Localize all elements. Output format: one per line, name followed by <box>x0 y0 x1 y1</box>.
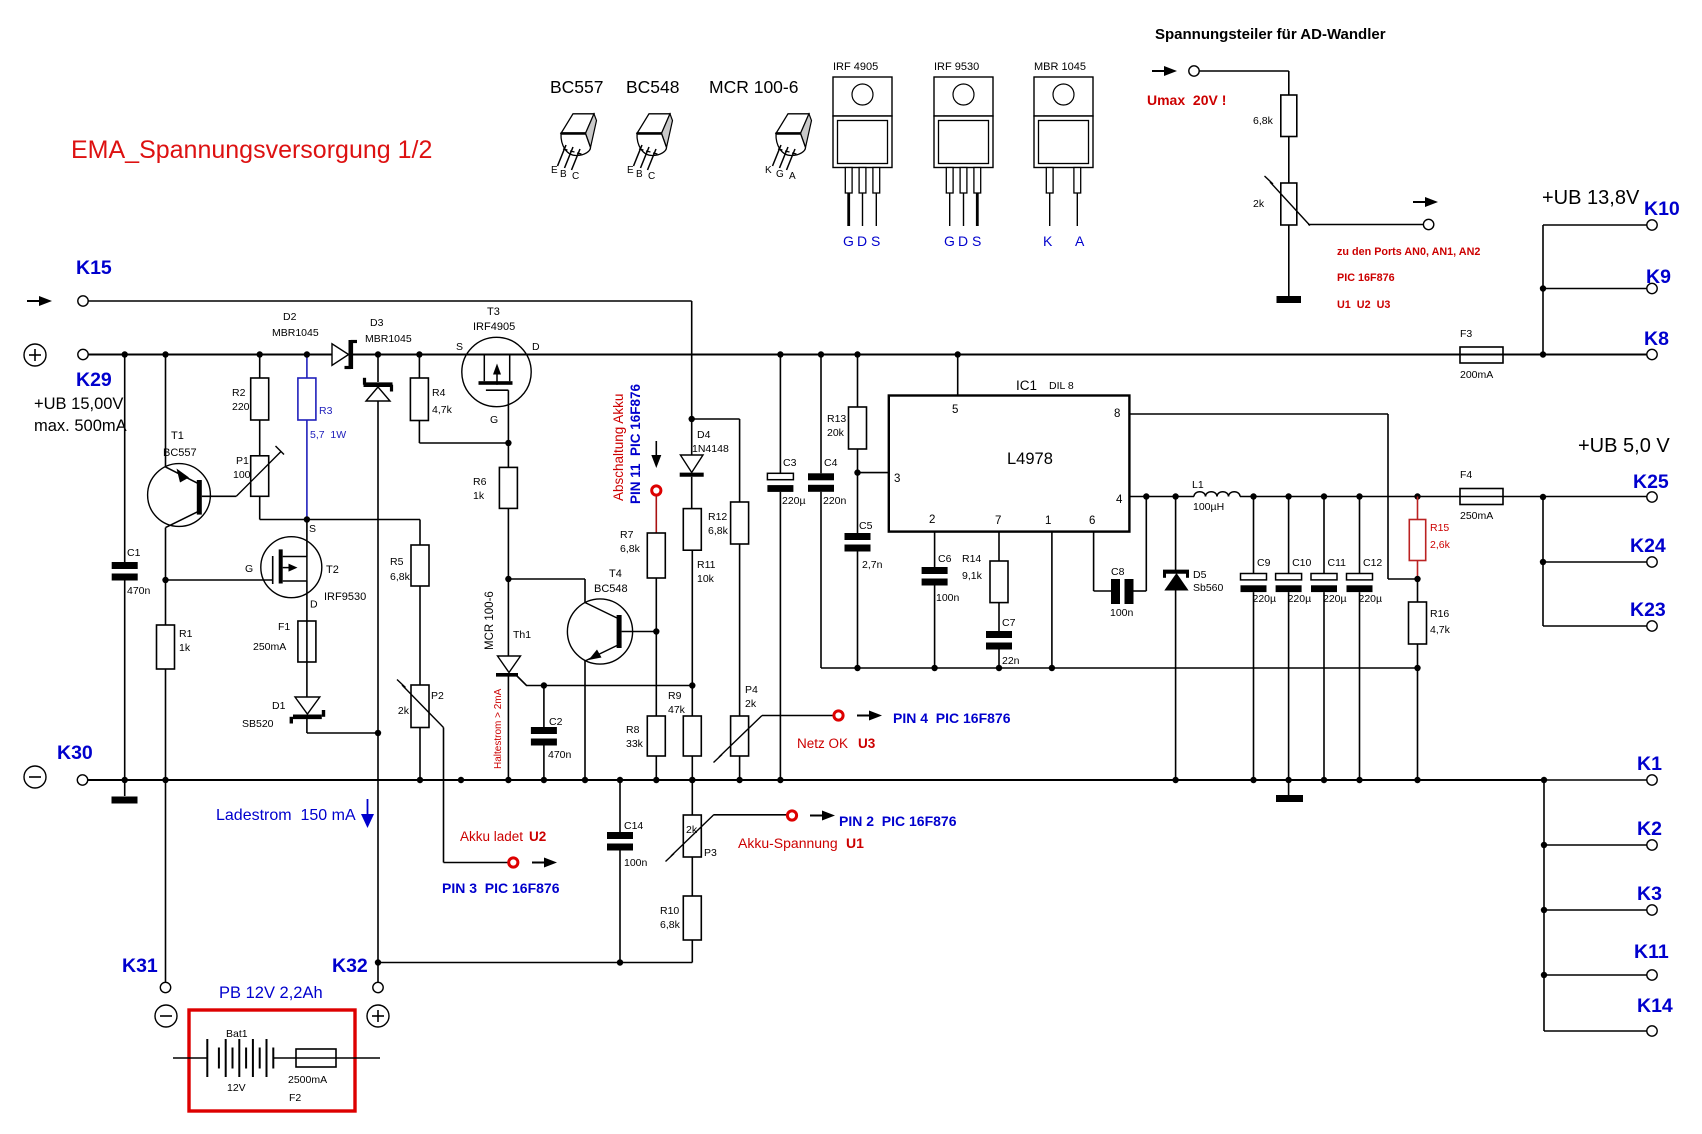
wire S to T2 source <box>306 520 308 557</box>
svg-text:8: 8 <box>1114 408 1120 420</box>
thyristor Th1 MCR 100-6 <box>496 629 692 686</box>
wire K11 <box>1541 972 1647 978</box>
svg-text:2k: 2k <box>1253 198 1265 210</box>
capacitor C5 2,7n <box>845 520 883 571</box>
svg-text:D: D <box>958 233 968 249</box>
svg-text:PB 12V 2,2Ah: PB 12V 2,2Ah <box>219 984 323 1002</box>
resistor R6 1k <box>473 467 517 508</box>
svg-text:6,8k: 6,8k <box>390 571 411 583</box>
svg-text:2k: 2k <box>745 698 757 710</box>
svg-text:R4: R4 <box>432 387 446 399</box>
diode D5 Sb560 <box>1163 493 1224 783</box>
svg-text:MCR 100-6: MCR 100-6 <box>709 77 798 97</box>
capacitor C2 470n <box>531 716 572 761</box>
svg-text:S: S <box>972 233 981 249</box>
wire C8 to +5V rail <box>1134 493 1150 591</box>
label +UB 15,00V <box>34 395 127 435</box>
package drawing BC557 (TO-92) <box>550 77 604 182</box>
svg-text:2,7n: 2,7n <box>862 559 883 571</box>
label MCR 100-6 (rotated) <box>484 591 496 650</box>
svg-text:2500mA: 2500mA <box>288 1074 327 1086</box>
svg-text:D5: D5 <box>1193 569 1207 581</box>
svg-text:S: S <box>456 341 463 353</box>
svg-text:T4: T4 <box>609 568 622 580</box>
wire R2 to P1 <box>259 420 261 456</box>
svg-text:B: B <box>560 169 567 180</box>
label Abschaltung Akku (rotated) <box>611 394 626 501</box>
svg-text:K1: K1 <box>1637 753 1662 775</box>
svg-text:C5: C5 <box>859 520 873 532</box>
wire K3 <box>1541 907 1647 913</box>
wire K23 <box>1543 625 1647 627</box>
svg-text:A: A <box>1075 233 1085 249</box>
svg-text:470n: 470n <box>548 749 572 761</box>
svg-text:L4978: L4978 <box>1007 450 1053 468</box>
output arrow <box>1413 197 1438 207</box>
svg-text:PIC 16F876: PIC 16F876 <box>1337 272 1395 284</box>
svg-text:R5: R5 <box>390 556 404 568</box>
node S junction <box>304 516 316 535</box>
wire R9 to ground bus <box>689 756 695 783</box>
wire +5V vertical <box>1540 494 1546 626</box>
wire R13 to C5 with pin3 tap <box>854 449 889 533</box>
wire K-lower vertical <box>1543 780 1545 1031</box>
svg-text:D4: D4 <box>697 429 711 441</box>
wire T2 drain to F1 <box>306 581 308 621</box>
svg-text:U3: U3 <box>858 736 876 751</box>
svg-text:PIN 3 PIC 16F876: PIN 3 PIC 16F876 <box>442 880 560 896</box>
wire P2 bottom to ground bus <box>417 728 423 784</box>
svg-text:BC557: BC557 <box>163 447 197 459</box>
wire to K31 <box>165 780 167 982</box>
red terminal PIN11 <box>652 486 661 495</box>
arrow PIN3 <box>532 858 557 868</box>
resistor R7 6,8k <box>620 529 665 578</box>
svg-text:5: 5 <box>952 404 958 416</box>
wire K15 rail <box>88 301 692 419</box>
wire T4 base <box>622 628 660 634</box>
svg-text:K10: K10 <box>1644 198 1680 220</box>
input arrow <box>1152 66 1177 76</box>
wire R3 top <box>304 351 310 378</box>
label PB 12V 2,2Ah <box>219 984 323 1002</box>
capacitor C1 470n <box>112 547 151 597</box>
svg-text:R14: R14 <box>962 553 981 565</box>
diode D1 SB520 <box>242 697 324 730</box>
junction K15 rail to D4 <box>689 416 695 422</box>
wire T1 emitter to bus <box>162 351 168 467</box>
svg-text:220µ: 220µ <box>1323 593 1347 605</box>
wire R3 bottom to S node <box>306 420 308 520</box>
arrow PIN4 <box>857 711 882 721</box>
svg-text:12V: 12V <box>227 1082 246 1094</box>
svg-text:R10: R10 <box>660 905 679 917</box>
label Netz OK U3 <box>797 736 876 751</box>
label zu den Ports <box>1337 246 1480 311</box>
wire C3 bottom to ground bus <box>777 492 783 783</box>
label +UB 13,8V <box>1542 187 1640 209</box>
svg-text:U2: U2 <box>529 829 546 844</box>
svg-text:K8: K8 <box>1644 328 1669 350</box>
plus symbol at K29 <box>24 344 46 366</box>
potentiometer 2k <box>1253 176 1310 226</box>
svg-text:IRF 4905: IRF 4905 <box>833 61 878 73</box>
svg-text:max. 500mA: max. 500mA <box>34 417 127 435</box>
terminal K30 <box>77 775 87 785</box>
label Akku ladet U2 <box>460 829 546 844</box>
wire K32 line <box>378 962 692 964</box>
svg-text:470n: 470n <box>127 585 151 597</box>
svg-text:Netz OK: Netz OK <box>797 736 848 751</box>
junction pin8/R15/R16 <box>1414 576 1420 582</box>
svg-text:Akku ladet: Akku ladet <box>460 829 523 844</box>
wire 2k to ground <box>1288 225 1290 296</box>
svg-text:200mA: 200mA <box>1460 369 1493 381</box>
svg-text:IRF 9530: IRF 9530 <box>934 61 979 73</box>
svg-text:100: 100 <box>233 469 251 481</box>
inductor L1 100uH <box>1192 479 1240 513</box>
svg-text:SB520: SB520 <box>242 718 274 730</box>
resistor R16 4,7k <box>1409 579 1451 644</box>
wire R2 top <box>257 351 263 378</box>
wire T4 collector <box>584 579 586 603</box>
svg-text:K3: K3 <box>1637 883 1662 905</box>
potentiometer P4 2k <box>714 684 763 763</box>
resistor 6,8k <box>1253 95 1297 137</box>
svg-text:R6: R6 <box>473 476 487 488</box>
resistor R8 33k <box>626 716 665 756</box>
diode D2 MBR1045 <box>272 311 357 369</box>
stray junction dot <box>458 777 464 783</box>
minus symbol at K30 <box>24 766 46 788</box>
wire C3 top <box>777 351 783 473</box>
svg-text:6: 6 <box>1089 515 1095 527</box>
transistor T3 IRF4905 <box>456 306 540 426</box>
wire R12 to P4 <box>739 544 741 716</box>
ground at K30 <box>112 780 138 804</box>
capacitor C14 100n <box>607 820 648 869</box>
svg-text:Th1: Th1 <box>513 629 531 641</box>
fuse F3 200mA <box>1460 328 1503 381</box>
svg-text:Sb560: Sb560 <box>1193 582 1224 594</box>
resistor R3 5,7 1W (blue) <box>298 378 346 441</box>
wire K24 <box>1543 561 1647 563</box>
wire D1 to battery-plus line <box>307 719 381 736</box>
svg-text:E: E <box>551 165 558 176</box>
svg-text:9,1k: 9,1k <box>962 570 983 582</box>
terminal K24 <box>1630 535 1666 567</box>
wire to T4 collector <box>508 578 585 580</box>
wire R7 to R8 <box>655 578 657 716</box>
svg-text:IRF9530: IRF9530 <box>324 591 366 603</box>
plus symbol at battery <box>367 1005 389 1027</box>
red terminal Netz OK <box>834 711 843 720</box>
svg-text:P3: P3 <box>704 847 717 859</box>
wire pin7 to R14 <box>998 532 1000 561</box>
wire C5 bottom to analog rail <box>854 552 860 672</box>
svg-text:U1 U2 U3: U1 U2 U3 <box>1337 299 1390 311</box>
terminal K29 <box>78 349 88 359</box>
svg-text:C: C <box>572 171 579 182</box>
wire R8 to ground bus <box>653 756 659 783</box>
arrow into PIN11 terminal <box>651 441 661 468</box>
node K31 <box>122 955 158 977</box>
resistor R13 20k <box>827 407 867 449</box>
wire C7 to analog rail <box>996 650 1002 672</box>
label PIN 3 PIC 16F876 <box>442 880 560 896</box>
svg-text:D1: D1 <box>272 700 286 712</box>
svg-text:20k: 20k <box>827 427 845 439</box>
svg-text:G: G <box>776 169 784 180</box>
svg-text:K23: K23 <box>1630 599 1666 621</box>
wire PIN11 to R7 <box>655 496 657 533</box>
package drawing BC548 (TO-92) <box>626 77 680 182</box>
svg-text:R13: R13 <box>827 413 846 425</box>
wire C4 bottom to analog rail <box>820 492 822 668</box>
svg-text:R16: R16 <box>1430 608 1449 620</box>
wire <box>1288 137 1290 184</box>
capacitor C10 220u <box>1276 493 1312 783</box>
svg-text:MBR1045: MBR1045 <box>272 327 319 339</box>
resistor R10 6,8k <box>660 896 701 940</box>
svg-text:EMA_Spannungsversorgung 1/2: EMA_Spannungsversorgung 1/2 <box>71 136 432 164</box>
svg-text:6,8k: 6,8k <box>708 525 729 537</box>
svg-text:B: B <box>636 169 643 180</box>
resistor R1 1k <box>157 625 193 669</box>
wire C2 top <box>541 682 547 727</box>
wire R13 top <box>854 351 860 407</box>
svg-text:P4: P4 <box>745 684 758 696</box>
label Haltestrom > 2mA (rotated) <box>493 688 504 769</box>
label PIN 2 PIC 16F876 <box>839 813 957 829</box>
wire R11 to R9 junction <box>689 550 695 716</box>
red terminal PIN2 (Akku-Spannung) <box>787 811 796 820</box>
svg-text:K31: K31 <box>122 955 158 977</box>
svg-text:Ladestrom 150 mA: Ladestrom 150 mA <box>216 807 356 824</box>
battery box (red) <box>189 1010 355 1111</box>
input terminal <box>1189 66 1199 76</box>
svg-text:K2: K2 <box>1637 818 1662 840</box>
svg-text:22n: 22n <box>1002 655 1020 667</box>
capacitor C9 220u <box>1241 493 1277 783</box>
svg-text:Abschaltung Akku: Abschaltung Akku <box>611 394 626 501</box>
ground at bottom bus <box>1276 780 1303 802</box>
svg-text:C8: C8 <box>1111 566 1125 578</box>
svg-text:IC1: IC1 <box>1016 378 1037 393</box>
analog ground rail <box>821 667 1418 669</box>
main +15V bus wire <box>88 354 1647 356</box>
package drawing IRF 9530 (TO-220) <box>934 61 993 249</box>
terminal K32 <box>373 963 383 993</box>
svg-text:C2: C2 <box>549 716 563 728</box>
svg-text:zu den Ports AN0, AN1, AN2: zu den Ports AN0, AN1, AN2 <box>1337 246 1480 258</box>
svg-text:D3: D3 <box>370 317 384 329</box>
svg-text:D: D <box>857 233 867 249</box>
capacitor C8 100n <box>1110 566 1134 619</box>
node K15 <box>76 257 112 279</box>
svg-text:F2: F2 <box>289 1092 301 1104</box>
wire R6 to Th1 <box>505 508 511 656</box>
svg-text:Umax 20V !: Umax 20V ! <box>1147 92 1226 108</box>
svg-text:C9: C9 <box>1257 557 1271 569</box>
svg-text:4: 4 <box>1116 494 1123 506</box>
wire S node to R5 <box>307 520 420 546</box>
wire C14 bottom to K32 line <box>617 851 623 966</box>
wire T1 collector down <box>162 528 168 625</box>
wire T2 gate <box>166 579 273 581</box>
svg-text:220µ: 220µ <box>1288 593 1312 605</box>
resistor R5 6,8k <box>390 545 429 586</box>
svg-text:C3: C3 <box>783 457 797 469</box>
resistor R9 47k <box>668 690 701 756</box>
svg-text:D: D <box>310 599 318 611</box>
svg-text:100n: 100n <box>936 592 960 604</box>
ground bus wire (0V) <box>88 779 1544 781</box>
svg-text:R2: R2 <box>232 387 246 399</box>
svg-text:2k: 2k <box>398 705 410 717</box>
svg-text:Akku-Spannung: Akku-Spannung <box>738 835 838 851</box>
wire P4 to ground bus <box>736 756 742 783</box>
transistor T4 BC548 <box>567 568 632 664</box>
potentiometer P1 100 <box>233 446 284 496</box>
capacitor C3 220u <box>767 457 805 507</box>
svg-text:K9: K9 <box>1646 266 1671 288</box>
blue arrow down (Ladestrom) <box>361 799 374 828</box>
svg-text:C6: C6 <box>938 553 952 565</box>
wire C1 bottom <box>122 581 128 784</box>
battery Bat1 12V <box>173 1028 296 1094</box>
title EMA_Spannungsversorgung 1/2 <box>71 136 432 164</box>
svg-text:C14: C14 <box>624 820 643 832</box>
wire C2 bottom <box>541 746 547 784</box>
wire pin4 +5V rail <box>1129 496 1194 498</box>
svg-text:+UB 15,00V: +UB 15,00V <box>34 395 123 413</box>
svg-text:C12: C12 <box>1363 557 1382 569</box>
IC U1 L4978 <box>889 378 1130 532</box>
svg-text:+UB 5,0 V: +UB 5,0 V <box>1578 435 1670 457</box>
wire K9 <box>1543 288 1647 290</box>
svg-text:5,7 1W: 5,7 1W <box>310 429 346 441</box>
svg-text:Haltestrom > 2mA: Haltestrom > 2mA <box>493 688 504 769</box>
svg-text:BC557: BC557 <box>550 77 604 97</box>
wire pin2 to C6 <box>934 532 936 567</box>
svg-text:Bat1: Bat1 <box>226 1028 248 1040</box>
arrow PIN2 <box>810 811 835 821</box>
svg-text:100µH: 100µH <box>1193 501 1224 513</box>
svg-text:6,8k: 6,8k <box>620 543 641 555</box>
transistor T2 IRF9530 <box>245 537 366 611</box>
svg-text:1N4148: 1N4148 <box>692 443 729 455</box>
svg-text:250mA: 250mA <box>253 641 286 653</box>
wire P4 wiper to Netz OK terminal <box>762 715 833 717</box>
svg-text:4,7k: 4,7k <box>1430 624 1451 636</box>
wire T4 emitter to ground bus <box>582 661 588 784</box>
svg-text:G: G <box>490 414 498 426</box>
resistor R14 9,1k <box>962 553 1008 603</box>
terminal K31 <box>160 982 170 992</box>
svg-text:K29: K29 <box>76 369 112 391</box>
capacitor C6 100n <box>922 553 960 604</box>
wire C1 top <box>122 351 128 562</box>
svg-text:PIN 4 PIC 16F876: PIN 4 PIC 16F876 <box>893 710 1011 726</box>
diode D4 1N4148 <box>680 419 729 475</box>
svg-text:2,6k: 2,6k <box>1430 539 1451 551</box>
svg-text:6,8k: 6,8k <box>1253 115 1274 127</box>
fuse F1 250mA <box>253 621 316 662</box>
terminal K3 <box>1637 883 1662 915</box>
terminal K1 <box>1637 753 1662 785</box>
wire R10 to K32 line <box>691 940 693 963</box>
wire P1 bottom to S node <box>260 496 307 519</box>
svg-text:G: G <box>843 233 854 249</box>
output terminal <box>1423 219 1433 229</box>
svg-text:220n: 220n <box>823 495 847 507</box>
wire Th1 cathode to ground bus <box>505 676 511 783</box>
svg-text:E: E <box>627 165 634 176</box>
svg-text:4,7k: 4,7k <box>432 404 453 416</box>
wire P3 to R10 <box>691 857 693 896</box>
svg-text:MBR1045: MBR1045 <box>365 333 412 345</box>
svg-text:D: D <box>532 341 540 353</box>
potentiometer P2 2k <box>397 680 444 728</box>
label PIN 4 PIC 16F876 <box>893 710 1011 726</box>
subcircuit title Spannungsteiler <box>1155 26 1386 43</box>
svg-text:C11: C11 <box>1328 557 1347 569</box>
terminal K15 <box>78 296 88 306</box>
package drawing MBR 1045 (TO-220) <box>1034 61 1093 249</box>
svg-text:K32: K32 <box>332 955 368 977</box>
wire K1 from ground bus <box>1541 777 1647 783</box>
svg-text:T2: T2 <box>326 564 339 576</box>
svg-text:3: 3 <box>894 473 900 485</box>
svg-text:R1: R1 <box>179 628 193 640</box>
svg-text:47k: 47k <box>668 704 686 716</box>
svg-text:33k: 33k <box>626 738 644 750</box>
svg-text:2k: 2k <box>686 824 698 836</box>
wire pin5 to bus <box>955 351 961 395</box>
minus symbol at battery <box>155 1005 177 1027</box>
capacitor C7 22n <box>986 617 1020 667</box>
wire C14 top <box>617 777 623 832</box>
wire D4 junction to R12 <box>692 419 740 502</box>
resistor R11 10k <box>683 509 715 585</box>
svg-text:220: 220 <box>232 401 250 413</box>
svg-text:L1: L1 <box>1192 479 1204 491</box>
label PIN 11 PIC 16F876 (rotated) <box>628 383 643 504</box>
node K30 <box>57 742 93 764</box>
wire bus to P3 <box>689 777 695 815</box>
svg-text:G: G <box>245 563 253 575</box>
wire pin6 to C8 <box>1094 532 1111 591</box>
svg-text:DIL 8: DIL 8 <box>1049 380 1074 392</box>
wire P3 wiper to PIN2 terminal <box>714 814 786 816</box>
svg-text:R8: R8 <box>626 724 640 736</box>
potentiometer P3 2k <box>666 815 718 862</box>
arrow into K15 <box>27 296 52 306</box>
wire R16 to ground bus <box>1414 644 1420 783</box>
wire R5 to P2 <box>419 586 421 685</box>
svg-text:S: S <box>871 233 880 249</box>
svg-text:K25: K25 <box>1633 471 1669 493</box>
svg-text:T3: T3 <box>487 306 500 318</box>
terminal K25 <box>1633 471 1669 502</box>
wire K10 <box>1543 224 1647 226</box>
terminal K2 <box>1637 818 1662 850</box>
svg-text:C: C <box>648 171 655 182</box>
svg-text:1k: 1k <box>473 490 485 502</box>
svg-text:6,8k: 6,8k <box>660 919 681 931</box>
svg-text:F1: F1 <box>278 621 290 633</box>
